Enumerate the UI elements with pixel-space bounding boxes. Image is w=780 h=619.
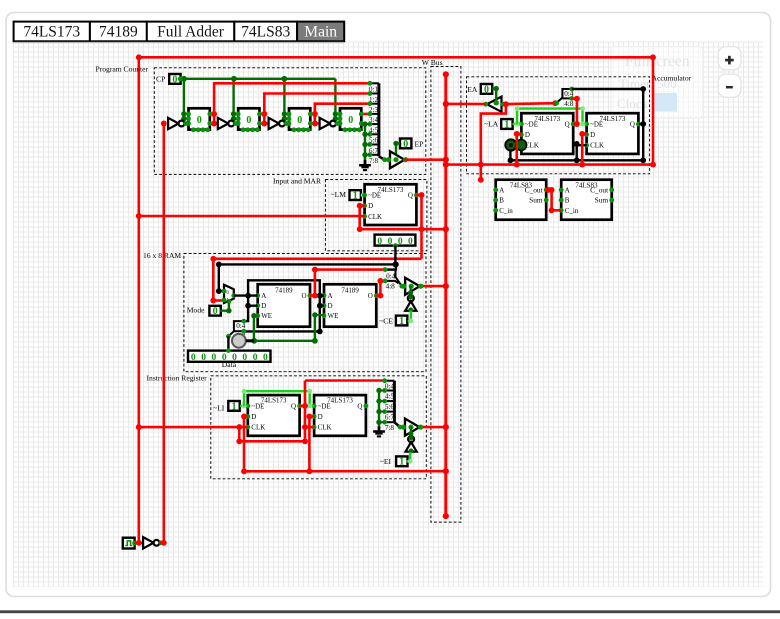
- bus joiner PC output: [368, 81, 388, 165]
- svg-text:3:4: 3:4: [369, 116, 378, 124]
- svg-text:C_out: C_out: [590, 185, 609, 194]
- knob data select: [232, 334, 254, 348]
- svg-text:A: A: [328, 292, 333, 300]
- wire EA enable: [492, 86, 499, 106]
- inverter clock: [143, 537, 163, 548]
- svg-text:Q: Q: [408, 192, 413, 200]
- wire WE1 drop: [251, 313, 256, 341]
- svg-text:CP: CP: [156, 75, 165, 84]
- svg-text:1: 1: [399, 457, 404, 468]
- svg-text:Mode: Mode: [187, 306, 205, 315]
- wire ACC joiner to EA buffer: [503, 100, 558, 106]
- wire CP to FF1 clock: [181, 79, 186, 122]
- wire ~EI to inverter: [407, 452, 413, 463]
- W bus wire: [443, 71, 449, 519]
- svg-text:7:8: 7:8: [369, 157, 378, 165]
- svg-text:74LS173: 74LS173: [261, 397, 287, 405]
- svg-text:Data: Data: [222, 360, 237, 369]
- svg-text:EP: EP: [415, 140, 424, 149]
- svg-text:2:3: 2:3: [369, 106, 378, 114]
- svg-text:0: 0: [191, 353, 196, 363]
- wire IR2 D down: [306, 414, 312, 475]
- svg-text:B: B: [499, 197, 504, 205]
- wire ACC bottom rail: [446, 162, 656, 168]
- svg-text:Q: Q: [565, 121, 570, 129]
- inverter ~EI: [406, 436, 417, 452]
- wire ACC feedback bottom: [508, 150, 647, 163]
- svg-text:~EI: ~EI: [380, 457, 392, 466]
- svg-text:~LA: ~LA: [484, 120, 499, 129]
- wire ~LI to IR2 enable: [242, 389, 315, 408]
- svg-text:0: 0: [348, 115, 353, 126]
- wire address to splitter: [385, 262, 399, 270]
- svg-text:74LS83: 74LS83: [241, 23, 290, 40]
- svg-text:74LS173: 74LS173: [327, 397, 353, 405]
- svg-text:Q: Q: [357, 402, 362, 410]
- svg-text:Q: Q: [291, 402, 296, 410]
- tri-state buffer RAM out: [401, 278, 423, 295]
- svg-text:WE: WE: [261, 312, 272, 320]
- svg-text:0: 0: [484, 84, 489, 95]
- svg-text:B: B: [565, 197, 570, 205]
- wire ~CE to inverter: [408, 311, 414, 324]
- wire MAR address down: [394, 246, 396, 265]
- svg-text:0: 0: [213, 306, 218, 317]
- register MAR 74LS173: [362, 184, 419, 225]
- svg-text:4:5: 4:5: [369, 126, 378, 134]
- wire clock vertical left: [136, 57, 142, 545]
- wire joiner to ground stem: [364, 155, 366, 161]
- svg-text:Full Adder: Full Adder: [157, 23, 225, 40]
- svg-text:CLK: CLK: [318, 424, 332, 432]
- wire Q2 to inverter3: [261, 114, 269, 126]
- bus splitter RAM data: [226, 319, 248, 340]
- svg-text:74189: 74189: [99, 23, 138, 40]
- svg-text:0:1: 0:1: [369, 86, 378, 94]
- indicator LED clock B: [516, 140, 527, 151]
- wire IR1 D down: [241, 414, 247, 475]
- wire address rail: [216, 262, 398, 268]
- svg-text:5:6: 5:6: [385, 403, 395, 411]
- svg-text:74189: 74189: [341, 287, 359, 295]
- adder 74LS83 high: [559, 180, 614, 220]
- svg-text:D: D: [328, 302, 333, 310]
- svg-text:4:8: 4:8: [564, 100, 574, 108]
- svg-text:CLK: CLK: [251, 424, 265, 432]
- svg-text:0: 0: [403, 139, 408, 150]
- indicator LED clock A: [505, 139, 516, 150]
- ground IR: [373, 426, 385, 436]
- svg-text:Fullscreen: Fullscreen: [625, 53, 690, 70]
- register IR low 74LS173: [245, 395, 302, 436]
- wire carry chain: [545, 187, 561, 213]
- svg-text:Q: Q: [630, 121, 635, 129]
- section box Instruction Register: [211, 376, 426, 479]
- section box Program Counter: [154, 68, 426, 175]
- clock generator: [123, 538, 137, 549]
- svg-text:D: D: [525, 131, 530, 139]
- svg-text:0: 0: [297, 115, 302, 126]
- svg-text:CLK: CLK: [590, 142, 604, 150]
- wire CP clock line: [179, 76, 336, 82]
- svg-text:5:6: 5:6: [369, 137, 378, 145]
- svg-text:1: 1: [399, 316, 404, 327]
- flip-flop stage 1: [186, 108, 212, 132]
- svg-text:Sum: Sum: [595, 196, 609, 205]
- RAM chip low 74189: [255, 284, 312, 326]
- wire RAM buffer to W bus: [421, 285, 446, 288]
- svg-text:D: D: [261, 302, 266, 310]
- wire WE2 drop: [312, 312, 317, 341]
- DIP switch strip Data: [188, 348, 271, 363]
- wire clock out: [135, 541, 144, 544]
- zoom out button: [718, 74, 741, 97]
- svg-text:WE: WE: [328, 312, 339, 320]
- wire CP to FF2 clock: [231, 79, 236, 122]
- svg-text:74189: 74189: [275, 287, 293, 295]
- toggle EA: [481, 84, 492, 95]
- tab bar: [14, 22, 345, 43]
- wire PC bits 4-7 to ground: [362, 121, 367, 159]
- svg-text:6:7: 6:7: [369, 147, 378, 155]
- flip-flop stage 3: [287, 108, 313, 132]
- section box 16 x 8 RAM: [184, 254, 426, 372]
- svg-text:0: 0: [398, 237, 403, 247]
- wire ~LA to ACC2 enable: [515, 106, 587, 126]
- ground PC: [359, 160, 371, 170]
- bus joiner RAM output: [383, 267, 404, 290]
- inverter ~CE: [405, 295, 416, 311]
- svg-text:~DE: ~DE: [251, 402, 264, 410]
- svg-text:D: D: [318, 413, 323, 421]
- bottom window edge: [0, 610, 780, 613]
- wire Q4 to joiner bit3: [362, 113, 370, 116]
- section box Input and MAR: [325, 180, 427, 251]
- zoom in button: [718, 47, 741, 70]
- wire address to mux in0: [216, 264, 224, 294]
- inverter clock stage 1: [168, 118, 188, 129]
- svg-text:D: D: [590, 131, 595, 139]
- wire address low vertical: [244, 280, 323, 334]
- wire ~EI inverter to buffer enable: [408, 427, 413, 437]
- flip-flop stage 4: [338, 108, 364, 132]
- toggle CP: [169, 74, 180, 85]
- svg-text:0: 0: [253, 353, 258, 363]
- svg-text:A: A: [499, 186, 504, 194]
- svg-text:16 x 8 RAM: 16 x 8 RAM: [143, 251, 181, 260]
- wire MAR D to W bus: [357, 203, 446, 232]
- wire EP enable: [393, 141, 400, 163]
- svg-text:A: A: [261, 292, 266, 300]
- toggle EP: [400, 139, 411, 150]
- svg-text:Main: Main: [304, 23, 337, 40]
- svg-text:~DE: ~DE: [318, 402, 331, 410]
- wire ~CE inverter to buffer enable: [408, 286, 413, 296]
- wire MAR Q to RAM address rail: [416, 192, 424, 259]
- tri-state buffer IR out: [401, 419, 423, 436]
- wire Q1 to inverter2: [211, 114, 219, 126]
- wire ACC Q1 to joiner: [572, 96, 580, 127]
- svg-text:4:8: 4:8: [386, 283, 396, 291]
- svg-text:EA: EA: [467, 85, 478, 94]
- svg-text:0: 0: [388, 237, 393, 247]
- wire Mode to mux select: [220, 303, 231, 314]
- svg-text:O: O: [368, 292, 373, 300]
- wire Q3 to joiner bit2: [311, 104, 370, 117]
- svg-text:Input and MAR: Input and MAR: [273, 177, 322, 186]
- svg-text:74LS173: 74LS173: [600, 115, 626, 123]
- toggle ~LA: [501, 119, 512, 130]
- svg-text:0: 0: [246, 115, 251, 126]
- svg-text:Instruction Register: Instruction Register: [147, 374, 208, 383]
- svg-text:74LS173: 74LS173: [534, 115, 560, 123]
- svg-text:~DE: ~DE: [368, 192, 381, 200]
- LED strip MAR output: [375, 235, 416, 248]
- bus splitter IR: [382, 378, 402, 432]
- svg-text:Accumulator: Accumulator: [652, 74, 692, 83]
- svg-text:CLK: CLK: [368, 213, 382, 221]
- svg-text:0: 0: [172, 74, 177, 85]
- wire EA buffer to W bus: [446, 103, 486, 106]
- svg-text:0: 0: [197, 115, 202, 126]
- svg-text:1:2: 1:2: [369, 96, 378, 104]
- svg-text:Sum: Sum: [529, 196, 543, 205]
- svg-text:6:7: 6:7: [385, 414, 395, 422]
- toggle Mode: [209, 306, 220, 317]
- svg-text:W Bus: W Bus: [422, 58, 443, 67]
- svg-text:0:4: 0:4: [385, 383, 395, 391]
- toggle ~EI: [396, 456, 407, 467]
- svg-text:0: 0: [263, 353, 268, 363]
- svg-text:0:4: 0:4: [386, 272, 396, 280]
- RAM chip high 74189: [322, 284, 379, 326]
- svg-text:7:8: 7:8: [385, 424, 395, 432]
- svg-text:~CE: ~CE: [379, 316, 393, 325]
- register IR high 74LS173: [312, 395, 369, 436]
- wire CP to FF4 clock: [333, 79, 338, 122]
- bus joiner ACC: [554, 87, 574, 109]
- wire EP buffer to W bus: [405, 158, 446, 161]
- tri-state buffer EA: [483, 97, 505, 112]
- svg-text:D: D: [368, 202, 373, 210]
- svg-text:~LI: ~LI: [213, 404, 225, 413]
- svg-text:0: 0: [242, 353, 247, 363]
- wire IR bottom rail to W bus: [244, 470, 446, 473]
- wire ACC D2 down: [579, 131, 585, 168]
- wire ACC D1 down: [514, 131, 520, 168]
- svg-text:1: 1: [504, 119, 509, 130]
- wire Q3 to inverter4: [312, 114, 321, 126]
- svg-text:Program Counter: Program Counter: [96, 65, 149, 74]
- svg-text:0: 0: [212, 353, 217, 363]
- toggle ~CE: [396, 316, 407, 327]
- svg-text:74LS173: 74LS173: [378, 186, 404, 194]
- wire mux out to RAM A: [234, 293, 258, 299]
- svg-text:C_in: C_in: [565, 207, 579, 215]
- wire data splitter to DIP: [227, 336, 229, 350]
- svg-text:D: D: [251, 413, 256, 421]
- wire WE rail: [247, 338, 318, 344]
- svg-text:4:5: 4:5: [385, 393, 395, 401]
- wire IR buffer to W bus: [421, 426, 446, 429]
- flip-flop stage 2: [236, 108, 262, 132]
- wire inverted clock vertical: [161, 121, 167, 546]
- svg-text:1: 1: [232, 401, 237, 412]
- register ACC high 74LS173: [584, 113, 641, 154]
- wire IR clock in: [139, 424, 248, 430]
- wire EA rail stub: [478, 101, 509, 183]
- svg-text:C_out: C_out: [525, 185, 544, 194]
- wire CP to FF3 clock: [282, 79, 287, 122]
- inverter clock stage 4: [320, 118, 340, 129]
- svg-text:~LM: ~LM: [331, 190, 347, 199]
- inverter clock stage 3: [269, 118, 289, 129]
- toggle ~LM: [350, 190, 361, 201]
- wire ACC CLK2 black: [574, 141, 587, 160]
- wire Q2 to joiner bit1: [260, 94, 370, 117]
- tri-state buffer EP: [386, 151, 408, 168]
- register ACC low 74LS173: [519, 113, 576, 154]
- wire ACC feedback top: [572, 86, 646, 160]
- svg-text:A: A: [565, 186, 570, 194]
- wire RAM top rail: [210, 256, 421, 304]
- toggle ~LI: [228, 401, 239, 412]
- svg-text:74LS173: 74LS173: [23, 23, 80, 40]
- svg-text:0: 0: [377, 237, 382, 247]
- svg-text:1: 1: [353, 191, 358, 202]
- wire IR clock loop: [236, 381, 308, 445]
- wire IR Q to splitter: [305, 379, 385, 382]
- wire ~LA enable net: [512, 122, 521, 127]
- inverter clock stage 2: [218, 118, 238, 129]
- svg-text:~DE: ~DE: [525, 121, 538, 129]
- wire RAM2 O up: [376, 278, 385, 299]
- svg-text:C_in: C_in: [499, 207, 513, 215]
- wire inverted clock stub: [159, 541, 164, 544]
- svg-text:O: O: [301, 292, 306, 300]
- wire Q1 to joiner bit0: [210, 83, 370, 117]
- faded toolbox panel: [611, 47, 703, 119]
- wire clock rail top loop: [136, 54, 656, 164]
- wire MAR clock: [139, 215, 365, 218]
- wire IR bits to ground: [376, 388, 381, 427]
- mux address select: [222, 285, 237, 304]
- wire ~LI enable net: [240, 404, 248, 409]
- adder 74LS83 low: [493, 180, 548, 220]
- section box W Bus: [431, 67, 461, 523]
- svg-text:0: 0: [408, 237, 413, 247]
- section box Accumulator: [467, 77, 650, 174]
- wire RAM1 O up: [310, 267, 385, 299]
- svg-text:~DE: ~DE: [590, 121, 603, 129]
- svg-text:0: 0: [201, 353, 206, 363]
